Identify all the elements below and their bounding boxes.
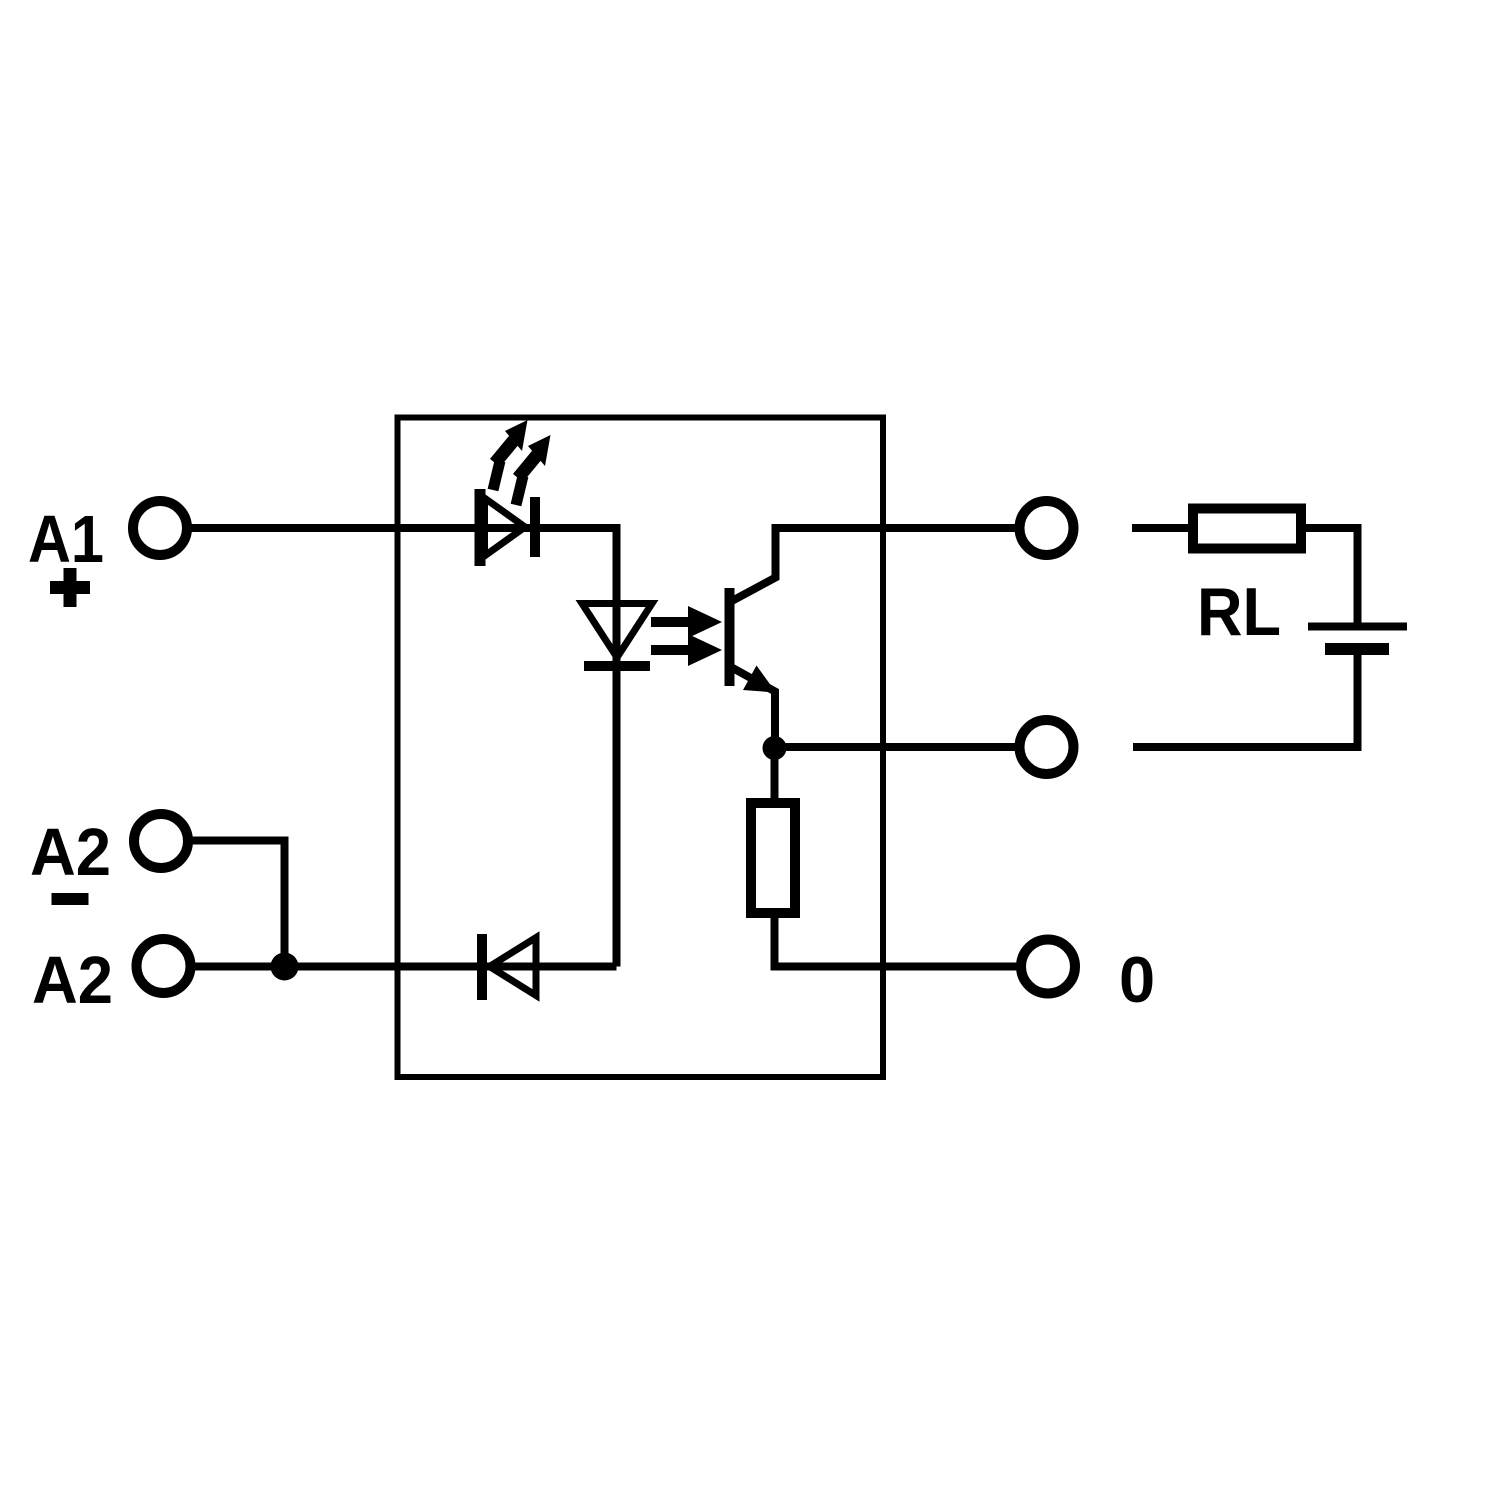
svg-text:A1: A1 [28, 502, 104, 577]
Q1 emitter [730, 666, 776, 749]
light arrow to transistor (lower) [651, 634, 722, 666]
terminal OUT2 [1020, 720, 1074, 774]
plus sign (A1 polarity) [50, 568, 90, 607]
wire A2 lower to inner corner [195, 963, 617, 971]
opto LED D2 (emitter diode) [582, 604, 652, 667]
svg-text:0: 0 [1119, 943, 1155, 1016]
LED D1 (indicator) [480, 489, 535, 566]
wire RL stub [1132, 524, 1193, 532]
resistor RL [1193, 509, 1301, 549]
flash arrow 2 (LED light) [516, 435, 551, 505]
node E (emitter junction dot) [763, 736, 787, 760]
wire RL to battery [1301, 528, 1358, 623]
wire resistor to terminal 0 [775, 913, 1020, 967]
wire A2 upper to junction [193, 841, 285, 967]
svg-text:A2: A2 [32, 943, 113, 1018]
terminal A1 [133, 501, 187, 555]
terminal A2 (upper) [134, 814, 188, 868]
svg-text:RL: RL [1197, 574, 1281, 650]
phototransistor Q1 base bar [725, 588, 735, 686]
label RL [1197, 574, 1281, 650]
wire junction to resistor [771, 748, 779, 803]
node A2 junction dot [271, 953, 299, 981]
terminal OUT1 [1020, 501, 1074, 555]
label A2 (lower) [32, 943, 113, 1018]
optocoupler box U1 [398, 418, 884, 1078]
svg-text:A2: A2 [30, 815, 111, 890]
flash arrow 1 (LED light) [493, 420, 528, 490]
battery B1 plate short [1325, 643, 1389, 655]
label A2 (upper) [30, 815, 111, 890]
battery B1 plate long [1308, 623, 1407, 631]
wire battery to OUT2 row [1133, 649, 1358, 747]
Q1 collector wire to terminal [730, 528, 1018, 602]
minus sign (A2 polarity) [52, 893, 89, 905]
label 0 [1119, 943, 1155, 1016]
label A1 [28, 502, 104, 577]
wire emitter junction to terminal 2 [774, 743, 1018, 751]
wire A1 to inner corner, down to bottom rail [191, 528, 617, 967]
light arrow to transistor (upper) [651, 606, 722, 638]
terminal OUT0 [1021, 940, 1075, 994]
terminal A2 (lower) [137, 939, 191, 993]
resistor R1 [751, 803, 795, 913]
diode D3 (reverse protection) [482, 934, 536, 1000]
